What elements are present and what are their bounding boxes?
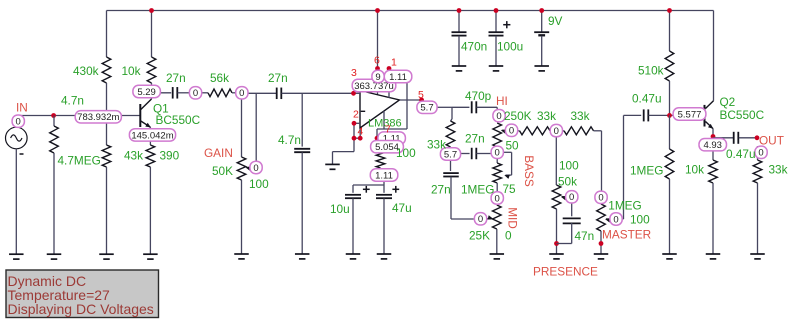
svg-text:0: 0: [239, 88, 244, 99]
svg-text:1MEG: 1MEG: [630, 164, 663, 178]
svg-text:470p: 470p: [465, 89, 492, 103]
svg-text:10u: 10u: [330, 202, 350, 216]
svg-text:100: 100: [396, 146, 416, 160]
svg-text:470n: 470n: [461, 39, 487, 53]
svg-text:1.11: 1.11: [375, 170, 393, 181]
svg-text:HI: HI: [496, 94, 508, 108]
svg-text:1: 1: [391, 57, 397, 69]
svg-text:100u: 100u: [497, 39, 523, 53]
svg-text:0: 0: [495, 148, 500, 159]
svg-text:50k: 50k: [558, 175, 577, 189]
svg-text:GAIN: GAIN: [204, 146, 233, 160]
svg-text:4.7n: 4.7n: [61, 94, 84, 108]
svg-text:7: 7: [385, 124, 391, 136]
svg-text:0: 0: [478, 214, 483, 225]
svg-text:27n: 27n: [465, 132, 485, 146]
svg-text:783.932m: 783.932m: [77, 112, 119, 123]
svg-text:0.47u: 0.47u: [726, 147, 756, 161]
svg-text:0: 0: [758, 148, 763, 159]
svg-text:1MEG: 1MEG: [461, 183, 494, 197]
svg-text:IN: IN: [16, 101, 28, 115]
svg-text:430k: 430k: [73, 64, 99, 78]
svg-text:BASS: BASS: [522, 155, 536, 187]
svg-text:MID: MID: [506, 207, 520, 229]
svg-text:4.7n: 4.7n: [278, 133, 301, 147]
svg-text:390: 390: [160, 149, 180, 163]
svg-text:47n: 47n: [575, 229, 595, 243]
svg-text:33k: 33k: [571, 109, 590, 123]
svg-text:56k: 56k: [210, 71, 229, 85]
svg-text:BC550C: BC550C: [720, 108, 765, 122]
svg-text:0: 0: [509, 126, 514, 137]
svg-text:1.11: 1.11: [389, 72, 407, 83]
svg-text:33k: 33k: [427, 138, 446, 152]
svg-text:0: 0: [253, 163, 258, 174]
svg-text:27n: 27n: [431, 183, 451, 197]
svg-text:2: 2: [353, 109, 359, 121]
svg-text:250K: 250K: [504, 109, 532, 123]
svg-text:0: 0: [554, 126, 559, 137]
svg-text:4.7MEG: 4.7MEG: [58, 154, 101, 168]
svg-text:25K: 25K: [469, 229, 490, 243]
svg-text:100: 100: [249, 177, 269, 191]
svg-text:3: 3: [351, 67, 357, 79]
svg-text:Displaying DC Voltages: Displaying DC Voltages: [8, 301, 154, 317]
svg-text:5.577: 5.577: [678, 109, 702, 120]
svg-text:5: 5: [418, 89, 424, 101]
svg-text:27n: 27n: [268, 71, 288, 85]
svg-text:50: 50: [506, 139, 520, 153]
svg-text:9: 9: [375, 72, 380, 83]
svg-text:4: 4: [358, 126, 364, 138]
svg-text:0: 0: [505, 229, 512, 243]
svg-text:510k: 510k: [638, 64, 664, 78]
svg-text:PRESENCE: PRESENCE: [533, 265, 598, 279]
svg-text:10k: 10k: [122, 64, 141, 78]
svg-text:33k: 33k: [769, 163, 788, 177]
svg-text:5.7: 5.7: [420, 103, 433, 114]
svg-text:Q2: Q2: [720, 95, 736, 109]
svg-text:1MEG: 1MEG: [608, 199, 641, 213]
svg-text:0.47u: 0.47u: [632, 92, 662, 106]
svg-text:75: 75: [503, 182, 517, 196]
svg-text:4.93: 4.93: [703, 140, 722, 151]
svg-text:0: 0: [193, 88, 198, 99]
svg-text:MASTER: MASTER: [602, 228, 651, 242]
svg-text:10k: 10k: [685, 163, 704, 177]
svg-text:47u: 47u: [392, 201, 412, 215]
svg-text:50K: 50K: [212, 164, 233, 178]
svg-text:0: 0: [496, 111, 501, 122]
svg-text:27n: 27n: [166, 71, 186, 85]
svg-text:0: 0: [613, 214, 618, 225]
svg-text:43k: 43k: [124, 149, 143, 163]
svg-text:OUT: OUT: [759, 134, 784, 148]
svg-text:9V: 9V: [548, 14, 563, 28]
svg-text:145.042m: 145.042m: [131, 130, 173, 141]
svg-text:0: 0: [495, 193, 500, 204]
svg-text:0: 0: [598, 193, 603, 204]
svg-text:33k: 33k: [537, 109, 556, 123]
svg-text:6: 6: [374, 55, 380, 67]
svg-text:100: 100: [630, 213, 650, 227]
svg-text:100: 100: [559, 159, 579, 173]
svg-text:5.29: 5.29: [137, 87, 156, 98]
svg-text:BC550C: BC550C: [156, 113, 201, 127]
svg-text:0: 0: [16, 117, 21, 128]
svg-text:0: 0: [569, 192, 574, 203]
